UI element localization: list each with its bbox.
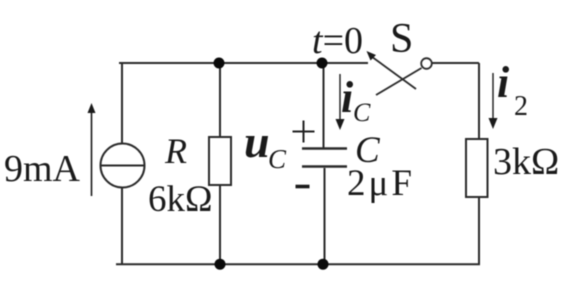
wire left branch upper — [121, 63, 123, 144]
wire right branch lower — [478, 197, 480, 264]
svg-text:R: R — [164, 131, 187, 171]
svg-text:6kΩ: 6kΩ — [148, 179, 213, 220]
svg-text:i: i — [497, 58, 510, 107]
current source I1 bar — [101, 165, 145, 167]
svg-text:2: 2 — [514, 91, 528, 122]
current arrow iC — [339, 74, 341, 122]
wire right branch upper — [478, 63, 480, 139]
switch S blade — [372, 57, 432, 96]
node D bottom junction dot — [318, 259, 329, 270]
resistor R body — [209, 137, 231, 185]
switch motion arrowhead — [367, 51, 377, 61]
wire top left segment — [119, 62, 368, 64]
wire C branch upper — [323, 63, 325, 148]
capacitor minus sign — [296, 185, 310, 189]
switch S fixed contact — [421, 58, 432, 69]
wire top right segment — [432, 62, 479, 64]
current arrow i2 — [492, 73, 494, 121]
svg-text:C: C — [268, 144, 287, 174]
wire C branch lower — [324, 168, 326, 264]
capacitor C bottom plate — [302, 165, 347, 167]
svg-text:9mA: 9mA — [4, 148, 81, 190]
wire R branch lower — [219, 185, 221, 264]
svg-text:u: u — [244, 116, 270, 167]
resistor R2 body — [466, 139, 488, 197]
svg-text:t=0: t=0 — [312, 20, 363, 62]
node A top junction dot — [214, 58, 225, 69]
current source I1 circle — [101, 144, 145, 188]
wire bottom — [116, 263, 480, 265]
capacitor C top plate — [302, 147, 347, 149]
svg-text:C: C — [353, 98, 371, 127]
svg-text:S: S — [390, 16, 413, 62]
source current arrow 9mA — [91, 112, 93, 196]
capacitor plus sign — [293, 121, 315, 143]
wire left branch lower — [121, 188, 123, 265]
svg-text:2μF: 2μF — [347, 163, 415, 204]
wire R branch upper — [219, 63, 221, 137]
node B top junction dot — [317, 58, 328, 69]
svg-text:3kΩ: 3kΩ — [493, 141, 559, 183]
node C bottom junction dot — [215, 259, 226, 270]
